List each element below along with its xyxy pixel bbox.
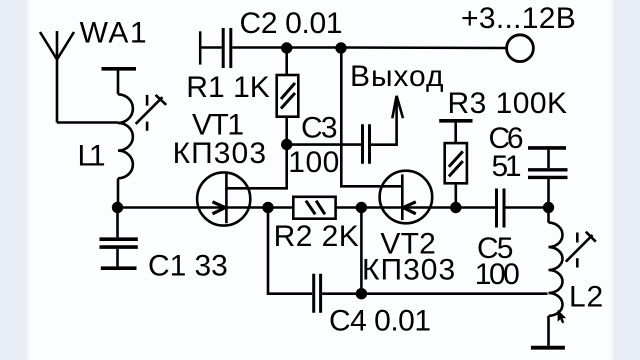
- node junction VT1-R2: [262, 202, 273, 213]
- inductor L2: [549, 223, 563, 316]
- wire C4 to node: [322, 292, 361, 295]
- svg-text:C2 0.01: C2 0.01: [240, 7, 343, 40]
- wire VT2 gate from right node: [403, 206, 456, 209]
- wire C2 left lead: [200, 46, 222, 49]
- open-end marker C2 left: [199, 31, 202, 64]
- wire L1 top stub: [117, 69, 120, 95]
- wire gate node down: [360, 208, 363, 294]
- svg-text:+3...12В: +3...12В: [461, 2, 576, 35]
- capacitor C2: [223, 28, 231, 68]
- wire L1 bottom: [117, 178, 120, 207]
- svg-text:100: 100: [475, 258, 520, 291]
- terminal +V circle: [507, 35, 534, 62]
- node junction bottom: [356, 288, 367, 299]
- wire C1 top lead: [116, 208, 119, 238]
- wire bottom rail to L2 tap: [361, 292, 547, 295]
- wire C5 to L2 node: [506, 206, 549, 209]
- svg-text:51: 51: [492, 150, 522, 183]
- node junction top rail right: [335, 42, 346, 53]
- capacitor C4: [314, 274, 321, 313]
- arrow output: [392, 96, 403, 119]
- trimmer arrow L2: [566, 232, 596, 268]
- node A junction: [112, 202, 123, 213]
- wire C6 top stub: [547, 150, 550, 169]
- capacitor C1: [100, 239, 138, 247]
- svg-text:L2: L2: [569, 280, 603, 313]
- svg-text:C1 33: C1 33: [148, 250, 228, 283]
- wire VT1 drain to node R1: [226, 145, 286, 189]
- mouse cursor: [558, 310, 567, 324]
- node junction R2-VT2: [356, 202, 367, 213]
- wire C6 bottom lead: [547, 179, 550, 208]
- svg-text:R3 100K: R3 100K: [448, 87, 568, 120]
- wire L2 bottom lead: [547, 316, 550, 346]
- wire VT1 source to R2: [226, 206, 268, 209]
- wire L2 top lead: [547, 208, 550, 223]
- wire to C5: [456, 206, 495, 209]
- wire C3 right lead: [371, 97, 397, 145]
- node junction R3 bottom: [450, 202, 461, 213]
- resistor R1: [277, 48, 299, 145]
- open-end marker L1 top: [102, 67, 137, 71]
- node junction L2 top: [543, 202, 554, 213]
- open-end marker R3 top: [439, 119, 472, 123]
- svg-text:100: 100: [288, 146, 339, 179]
- wire VT2 source lead: [361, 206, 402, 209]
- open-end marker L2 bottom: [531, 346, 565, 350]
- wire C3 left lead: [287, 143, 361, 146]
- resistor R2: [268, 197, 361, 219]
- svg-text:C3: C3: [301, 112, 338, 145]
- svg-text:R1 1K: R1 1K: [186, 71, 269, 104]
- transistor VT1 (JFET КП303): [197, 172, 250, 225]
- node junction top rail left: [281, 42, 292, 53]
- wire down to bottom rail: [268, 208, 312, 294]
- svg-text:R2 2K: R2 2K: [274, 220, 359, 253]
- capacitor C3: [363, 124, 370, 164]
- trimmer arrow L1: [136, 95, 167, 131]
- svg-text:L1: L1: [78, 140, 106, 173]
- capacitor C6: [528, 170, 568, 178]
- capacitor C5: [497, 189, 505, 228]
- svg-text:КП303: КП303: [362, 254, 455, 287]
- open-end marker C1 bottom: [101, 266, 137, 270]
- svg-text:КП303: КП303: [173, 137, 266, 170]
- node junction R1 bottom: [281, 139, 292, 150]
- svg-text:WA1: WA1: [80, 17, 147, 50]
- wire C1 bottom lead: [116, 249, 119, 267]
- open-end marker C6 top: [528, 146, 566, 150]
- svg-text:C4 0.01: C4 0.01: [329, 305, 431, 338]
- resistor R3: [445, 123, 467, 208]
- wire top rail: [232, 46, 506, 49]
- inductor L1: [118, 94, 133, 178]
- svg-text:Выход: Выход: [350, 60, 444, 93]
- antenna WA1: [40, 31, 74, 123]
- wire main rail to VT1 gate: [118, 206, 227, 209]
- wire antenna to L1 tap: [57, 121, 118, 124]
- wire VT2 drain up rail: [341, 48, 402, 186]
- transistor VT2 (JFET КП303): [380, 171, 433, 224]
